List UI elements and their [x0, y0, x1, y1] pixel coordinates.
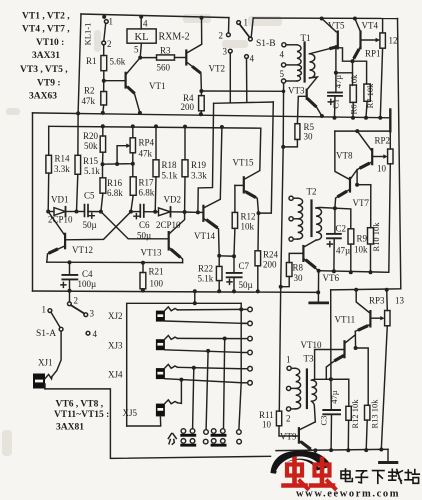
- svg-text:RP3: RP3: [369, 296, 385, 306]
- capacitor C6: [131, 211, 140, 213]
- scan smudge near KL1-1: [94, 30, 101, 52]
- wire bottom supply rail: [276, 449, 388, 450]
- resistor R12 (bottom): [346, 406, 351, 420]
- node KL pin5 / R3 / VT1 collector: [138, 56, 142, 60]
- transistor VT12: [64, 234, 66, 248]
- wire terminal connector vertical: [239, 303, 241, 429]
- node VT2 emitter / R4: [199, 89, 203, 93]
- svg-text:4: 4: [280, 50, 285, 60]
- resistor R1: [101, 56, 107, 71]
- node XJ3 sleeve drop: [206, 349, 210, 353]
- wire selector output run y103: [214, 102, 274, 103]
- svg-text:10: 10: [377, 164, 387, 174]
- node C7 top: [232, 254, 236, 258]
- svg-text:2: 2: [107, 39, 112, 49]
- wire emitter rail of VT12/VT13: [47, 261, 183, 263]
- svg-text:R17: R17: [139, 178, 155, 188]
- switch S1-A: [69, 291, 71, 302]
- svg-text:C1: C1: [331, 99, 341, 109]
- wire top supply rail right segment: [253, 17, 397, 20]
- svg-text:VT5: VT5: [328, 21, 345, 31]
- svg-text:VT3 , VT5 ,: VT3 , VT5 ,: [20, 65, 68, 75]
- wire rail y271 VT6 emitter row: [319, 271, 389, 273]
- svg-text:R22: R22: [198, 264, 213, 274]
- node XJ4 tip drop: [192, 366, 196, 370]
- node top rail / KL1-1: [102, 15, 106, 19]
- watermark red character chong 1: [284, 459, 308, 489]
- transformer T2 secondary winding: [316, 208, 322, 240]
- diode VD2: [155, 211, 158, 213]
- node C2 top on secondary wire: [333, 206, 337, 210]
- svg-text:VT14: VT14: [194, 231, 215, 241]
- svg-text:2: 2: [286, 414, 291, 424]
- jack XJ2: [156, 311, 165, 322]
- svg-text:R2: R2: [84, 86, 95, 96]
- transformer T2 pins: [289, 196, 293, 200]
- svg-text:5.1k: 5.1k: [162, 171, 178, 181]
- potentiometer RP4: [131, 124, 135, 128]
- wire left frame vertical: [32, 113, 34, 291]
- resistor R5: [295, 124, 300, 140]
- resistor R15: [77, 113, 79, 155]
- svg-text:VD2: VD2: [164, 195, 182, 205]
- svg-text:VT11: VT11: [335, 315, 356, 325]
- svg-text:VT15: VT15: [233, 158, 254, 168]
- svg-text:30: 30: [294, 273, 304, 283]
- transistor VT8: [371, 149, 373, 164]
- wire T1 secondary top to VT5 emitter: [310, 47, 338, 54]
- transistor VT10: [343, 341, 345, 357]
- wire left vertical from top rail to bus: [78, 14, 81, 113]
- svg-text:RXM-2: RXM-2: [159, 32, 190, 43]
- node C1 top: [334, 71, 338, 75]
- wire T2 secondary bottom to VT6 collector: [303, 240, 316, 247]
- svg-text:3AX81: 3AX81: [56, 423, 84, 433]
- label fen character (split): [168, 434, 176, 439]
- svg-text:KL1-1: KL1-1: [83, 23, 93, 46]
- transformer T1 primary pins: [282, 43, 286, 47]
- svg-text:XJ2: XJ2: [108, 311, 123, 321]
- capacitor C5: [77, 211, 85, 213]
- node C6 / R18 / VD2 anode: [153, 210, 157, 214]
- svg-text:VT4: VT4: [362, 21, 379, 31]
- split output terminal group 2: [204, 430, 209, 435]
- potentiometer RP2: [388, 149, 393, 164]
- svg-text:10k: 10k: [241, 222, 255, 232]
- wire cross-coupling to VT12 base: [65, 212, 131, 240]
- svg-text:4: 4: [93, 329, 98, 339]
- svg-text:4: 4: [250, 54, 255, 64]
- svg-text:10: 10: [262, 420, 272, 430]
- wire T3 secondary top to R12: [312, 379, 349, 406]
- svg-text:6.8k: 6.8k: [107, 188, 123, 198]
- svg-text:KL: KL: [135, 32, 149, 43]
- capacitor C3: [330, 379, 332, 409]
- watermark red character chong 2: [311, 459, 335, 489]
- svg-text:RP2: RP2: [375, 136, 391, 146]
- svg-text:VT11~VT15 :: VT11~VT15 :: [54, 410, 109, 420]
- wire right section rail y131: [335, 130, 391, 132]
- split output terminal group 3: [211, 429, 216, 434]
- svg-text:VT6 , VT8 ,: VT6 , VT8 ,: [56, 400, 104, 410]
- svg-text:RP1: RP1: [365, 49, 381, 59]
- transistor VT1: [124, 73, 126, 88]
- transistor VT13: [168, 232, 170, 249]
- wire jack area frame: [127, 303, 242, 426]
- svg-text:VT9 :: VT9 :: [37, 79, 61, 89]
- transistor VT9: [298, 428, 300, 442]
- svg-text:R21: R21: [149, 267, 164, 277]
- svg-text:50k: 50k: [84, 141, 98, 151]
- svg-text:C3: C3: [318, 416, 328, 426]
- wire multivibrator top rail: [49, 126, 261, 128]
- svg-text:VT4 , VT7 ,: VT4 , VT7 ,: [22, 25, 70, 35]
- svg-text:R9: R9: [357, 234, 368, 244]
- svg-text:2: 2: [74, 296, 79, 306]
- transistor VT14: [202, 206, 204, 221]
- svg-text:50µ: 50µ: [83, 220, 97, 230]
- svg-text:R1: R1: [86, 56, 97, 66]
- wire drops to split terminals: [224, 339, 225, 429]
- svg-text:47µ: 47µ: [336, 246, 350, 256]
- transformer T3 secondary winding: [312, 380, 317, 401]
- wire node A down to C1/R6 tie: [336, 61, 353, 73]
- node C6 / R17 / VT12 base: [129, 210, 133, 214]
- jack XJ1: [33, 374, 45, 389]
- svg-text:VT9: VT9: [280, 432, 297, 442]
- svg-text:50µ: 50µ: [239, 280, 253, 290]
- svg-text:5.1k: 5.1k: [84, 166, 100, 176]
- svg-text:VT1 , VT2 ,: VT1 , VT2 ,: [22, 12, 70, 22]
- transformer T2 core: [310, 201, 312, 237]
- svg-text:R6: R6: [348, 105, 358, 115]
- ground at bottom right: [387, 449, 389, 461]
- scan smudge top center: [183, 14, 211, 23]
- svg-text:2CP10: 2CP10: [156, 220, 181, 230]
- node C5 / R16 / VT13 base: [99, 210, 103, 214]
- transistor VT11: [369, 311, 371, 326]
- resistor R8: [286, 263, 292, 277]
- svg-text:12: 12: [389, 36, 398, 46]
- svg-text:VT2: VT2: [209, 64, 226, 74]
- svg-text:VT8: VT8: [336, 151, 353, 161]
- node R20/R16/wiper rail: [101, 162, 105, 166]
- resistor R16: [102, 164, 104, 178]
- wire S1-A pivot to XJ1: [52, 331, 61, 376]
- svg-text:5.1k: 5.1k: [198, 274, 214, 284]
- svg-text:C6: C6: [139, 220, 150, 230]
- svg-text:VT6: VT6: [323, 273, 340, 283]
- svg-text:R5: R5: [304, 122, 315, 132]
- node VT10 collector / VT11 emitter / R13: [354, 346, 358, 350]
- switch S1-B: [228, 18, 230, 33]
- svg-text:C2: C2: [336, 224, 347, 234]
- svg-text:R11: R11: [259, 410, 274, 420]
- svg-text:XJ4: XJ4: [108, 370, 123, 380]
- split output terminal group 4: [237, 430, 242, 435]
- svg-text:5: 5: [134, 45, 139, 55]
- svg-text:VD1: VD1: [51, 195, 69, 205]
- svg-text:R10 10k: R10 10k: [371, 222, 381, 252]
- svg-text:R7 10k: R7 10k: [365, 83, 375, 109]
- jack XJ5: [156, 404, 165, 417]
- svg-text:4: 4: [143, 19, 148, 29]
- svg-text:10k: 10k: [349, 74, 359, 88]
- wire T1 secondary bottom to VT3 collector: [307, 77, 318, 90]
- svg-text:T1: T1: [301, 33, 311, 43]
- transformer T1 secondary winding: [310, 54, 315, 78]
- node XJ4 sleeve / XJ5 tip riser: [179, 378, 183, 382]
- svg-text:200: 200: [263, 260, 277, 270]
- svg-text:XJ1: XJ1: [38, 358, 53, 368]
- svg-text:1: 1: [42, 305, 47, 315]
- relay KL coil box: [127, 29, 156, 43]
- svg-text:1: 1: [286, 355, 291, 365]
- transformer T1 core: [304, 43, 306, 82]
- wire bottom frame from XJ1: [45, 389, 271, 459]
- svg-text:R20: R20: [83, 131, 99, 141]
- watermark site name characters: [341, 469, 419, 483]
- ground of VT6 emitter: [317, 271, 319, 303]
- resistor R12 (10k mid): [234, 185, 236, 212]
- transformer T1 primary winding: [297, 45, 301, 81]
- svg-text:100µ: 100µ: [78, 279, 97, 289]
- resistor R24: [257, 213, 260, 251]
- svg-text:R14: R14: [55, 154, 71, 164]
- svg-text:3.3k: 3.3k: [54, 164, 70, 174]
- svg-text:47µ: 47µ: [329, 390, 339, 404]
- svg-text:VT12: VT12: [72, 245, 93, 255]
- resistor R17: [132, 164, 134, 177]
- node VD2 / R19 / VT13 collector / VT14 base rail: [183, 210, 187, 214]
- svg-text:200: 200: [181, 102, 195, 112]
- svg-text:47µ: 47µ: [333, 75, 343, 89]
- svg-text:100: 100: [150, 279, 164, 289]
- node VT14 emitter / R22 / C7 link: [217, 254, 221, 258]
- wire right frame vertical: [398, 19, 401, 289]
- resistor R2: [103, 81, 105, 92]
- svg-text:R18: R18: [162, 160, 178, 170]
- svg-text:S1-A: S1-A: [36, 329, 56, 339]
- svg-text:10k: 10k: [354, 245, 368, 255]
- svg-text:3: 3: [223, 47, 228, 57]
- node XJ2 tip junction: [239, 307, 243, 311]
- svg-text:R15: R15: [83, 156, 99, 166]
- transistor VT2: [185, 51, 187, 65]
- wire cross-coupling to VT13 base: [101, 212, 169, 239]
- svg-text:XJ5: XJ5: [123, 408, 138, 418]
- resistor R10: [370, 185, 372, 228]
- svg-text:5.6k: 5.6k: [110, 57, 126, 67]
- wire top supply rail left segment: [81, 14, 229, 18]
- wire lower horizontal rail y291: [33, 291, 319, 292]
- jack XJ3: [156, 339, 165, 350]
- wire to T1 pin column: [201, 90, 283, 92]
- node R5 / T1 pin drop: [281, 145, 285, 149]
- wire long vertical from T1 bottom pin through R5 node down to R8 node and T3: [279, 83, 283, 411]
- svg-text:2: 2: [219, 31, 224, 41]
- svg-text:C5: C5: [84, 191, 95, 201]
- svg-text:www.eeworm.com: www.eeworm.com: [296, 489, 400, 500]
- svg-text:50µ: 50µ: [137, 231, 151, 241]
- svg-text:VT13: VT13: [141, 248, 162, 258]
- capacitor C7: [233, 256, 235, 272]
- svg-text:T3: T3: [304, 354, 314, 364]
- svg-text:6.8k: 6.8k: [139, 188, 155, 198]
- transistor VT7: [349, 178, 351, 192]
- svg-text:VT10 :: VT10 :: [36, 38, 64, 48]
- wire x273 drop to VT15 emitter node: [259, 102, 274, 213]
- wire RP4 wiper rail: [103, 163, 133, 166]
- transistor VT4: [353, 17, 357, 21]
- resistor R4: [200, 91, 202, 96]
- wire Z path to VT14 base: [198, 103, 214, 212]
- resistor R14: [48, 126, 50, 155]
- wire long horizontal bus (VT1/VT2 emitter rail): [33, 113, 391, 118]
- svg-text:47k: 47k: [82, 96, 96, 106]
- resistor R19: [183, 125, 187, 129]
- node XJ3 tip drop: [223, 337, 227, 341]
- capacitor C1: [335, 73, 337, 92]
- svg-text:1: 1: [244, 18, 249, 28]
- node VD1 anode / R14 / VT12 collector: [46, 210, 50, 214]
- ground bar near RP1: [389, 110, 391, 132]
- svg-text:T2: T2: [307, 187, 317, 197]
- transistor VT3: [306, 90, 308, 99]
- wire VT10 base riser: [315, 350, 345, 380]
- transformer T3 primary winding: [296, 368, 301, 409]
- wire bottom-right section rail: [331, 289, 401, 290]
- resistor R22: [218, 256, 220, 267]
- svg-text:R3: R3: [160, 46, 171, 56]
- svg-text:VT3: VT3: [288, 86, 305, 96]
- resistor R21: [141, 261, 145, 265]
- scan smudge left margin: [6, 108, 20, 115]
- resistor R20: [101, 124, 105, 128]
- svg-text:C7: C7: [239, 261, 250, 271]
- svg-text:R24: R24: [263, 250, 279, 260]
- svg-text:R19: R19: [191, 160, 207, 170]
- svg-text:560: 560: [157, 63, 171, 73]
- wire T2 secondary top to R9: [316, 207, 351, 228]
- svg-text:13: 13: [395, 296, 405, 306]
- svg-text:R16: R16: [107, 178, 123, 188]
- resistor R11: [276, 411, 281, 426]
- svg-text:R12: R12: [241, 212, 256, 222]
- resistor R13: [365, 405, 370, 420]
- svg-text:VT10: VT10: [301, 340, 322, 350]
- svg-text:R8: R8: [293, 263, 304, 273]
- resistor R9: [348, 229, 354, 244]
- svg-text:R13 10k: R13 10k: [369, 399, 379, 429]
- resistor R6: [352, 73, 354, 85]
- potentiometer RP1: [382, 19, 384, 33]
- split output terminal group 1: [181, 429, 186, 434]
- transformer T3 pins: [287, 366, 291, 370]
- svg-text:47k: 47k: [139, 149, 153, 159]
- node VT15 emitter / R24 / x273 wire: [257, 211, 261, 215]
- jack XJ4: [156, 368, 165, 379]
- svg-text:R12 10k: R12 10k: [350, 399, 360, 429]
- resistor R18: [154, 124, 158, 128]
- capacitor C4: [68, 260, 72, 264]
- svg-text:1: 1: [109, 17, 114, 27]
- svg-text:3AX63: 3AX63: [29, 92, 57, 102]
- wire T3 secondary bottom to VT9 collector: [312, 401, 316, 422]
- svg-text:3AX31: 3AX31: [32, 51, 60, 61]
- svg-text:2CP10: 2CP10: [48, 215, 73, 225]
- node frame riser to rail: [193, 301, 197, 305]
- svg-text:30: 30: [304, 132, 314, 142]
- resistor R7: [364, 84, 370, 101]
- diode VD1: [48, 211, 54, 213]
- watermark swoosh: [271, 451, 332, 474]
- terminal circles column: [241, 308, 248, 310]
- node VD1 cathode / R15 / C5: [75, 210, 79, 214]
- svg-text:RP4: RP4: [139, 138, 155, 148]
- transistor VT6: [302, 246, 304, 261]
- transistor VT15: [243, 177, 245, 192]
- wire VT11 emitter vertical: [354, 331, 356, 348]
- node R1/R2/VT1 base: [102, 79, 106, 83]
- svg-text:S1-B: S1-B: [256, 39, 276, 49]
- svg-text:VT7: VT7: [353, 198, 370, 208]
- transformer T2 primary winding: [298, 198, 303, 239]
- resistor R3: [140, 57, 156, 59]
- svg-text:C4: C4: [82, 269, 93, 279]
- node VT8 emitter / VT7 collector: [355, 183, 359, 187]
- transformer T3 core: [306, 370, 308, 409]
- node VT4 emitter / VT5 base: [351, 59, 355, 63]
- node T3 secondary / C3: [329, 377, 333, 381]
- svg-text:VT1: VT1: [149, 81, 166, 91]
- wire left drop of bottom-right rail to C3: [330, 290, 332, 379]
- svg-text:5: 5: [280, 69, 285, 79]
- svg-text:3: 3: [90, 309, 95, 319]
- switch KL1-1: [104, 20, 108, 24]
- svg-text:3.3k: 3.3k: [191, 171, 207, 181]
- potentiometer RP3: [385, 311, 390, 326]
- wire node A to R7: [353, 61, 367, 84]
- capacitor C2: [334, 208, 336, 233]
- svg-text:XJ3: XJ3: [108, 341, 123, 351]
- transistor VT5: [320, 17, 324, 21]
